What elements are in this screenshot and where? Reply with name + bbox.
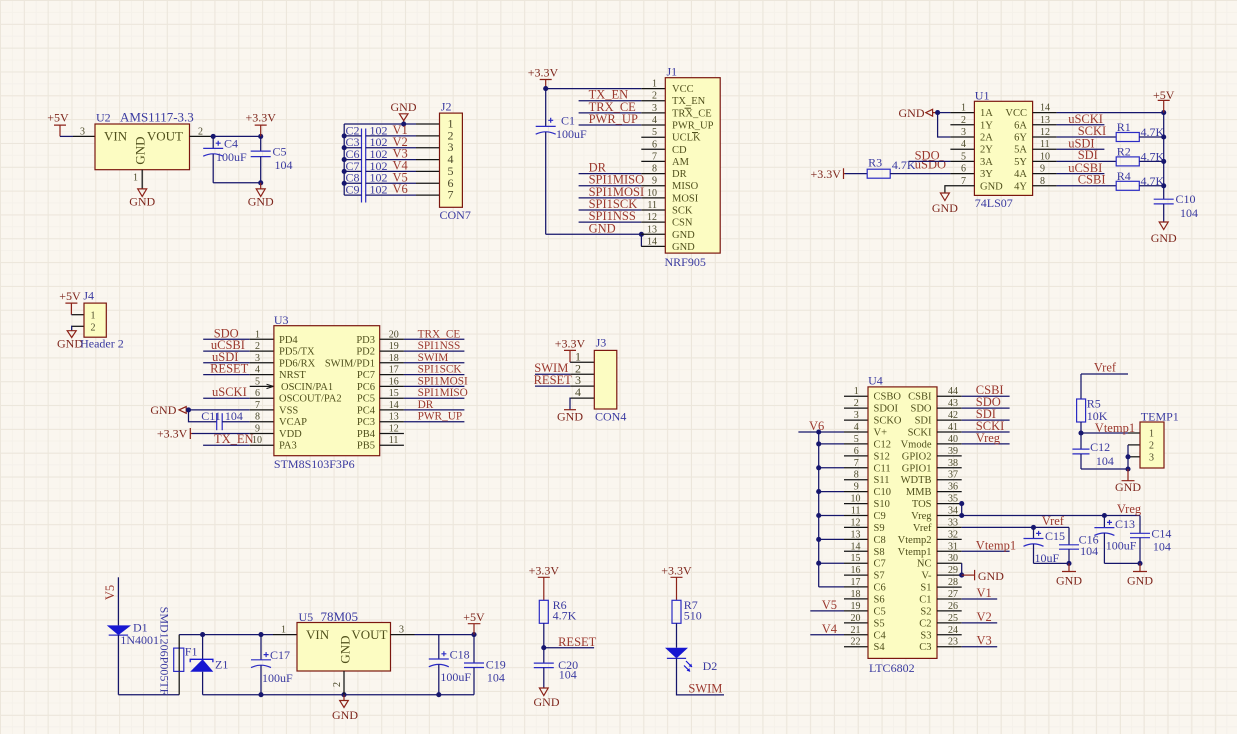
- svg-text:GND: GND: [391, 100, 417, 114]
- svg-text:15: 15: [389, 388, 399, 399]
- wire Vref pin33 to C15 group: [962, 526, 1069, 528]
- power +5V port: [59, 289, 81, 315]
- ground below C20: [534, 688, 560, 709]
- svg-text:Vref: Vref: [1094, 361, 1117, 375]
- U3 pin names left: [279, 335, 342, 452]
- svg-text:3: 3: [80, 126, 85, 137]
- svg-text:C1: C1: [919, 594, 931, 605]
- svg-text:R4: R4: [1117, 169, 1131, 183]
- U4 pin stubs right: [937, 396, 962, 647]
- svg-text:104: 104: [1180, 206, 1198, 220]
- svg-text:LTC6802: LTC6802: [869, 661, 915, 675]
- U4 pin numbers left: [851, 386, 861, 648]
- svg-text:AMS1117-3.3: AMS1117-3.3: [120, 110, 194, 125]
- ground rail: [203, 694, 474, 696]
- svg-text:TOS: TOS: [912, 499, 932, 510]
- U4 pin stubs left: [844, 396, 868, 647]
- svg-text:8: 8: [1040, 176, 1045, 187]
- svg-text:78M05: 78M05: [321, 609, 359, 624]
- svg-text:7: 7: [448, 188, 454, 202]
- capacitor C20 104: [534, 658, 578, 688]
- svg-text:1: 1: [961, 103, 966, 114]
- svg-text:2: 2: [652, 91, 657, 102]
- svg-text:GND: GND: [332, 708, 358, 722]
- svg-text:4: 4: [575, 385, 581, 399]
- svg-text:VCC: VCC: [1005, 108, 1027, 119]
- clock arrow on pin5: [267, 384, 274, 388]
- svg-text:2: 2: [961, 115, 966, 126]
- U1 pin stubs right: [1033, 113, 1057, 186]
- svg-text:V4: V4: [822, 622, 838, 636]
- svg-text:4: 4: [652, 115, 657, 126]
- svg-text:V6: V6: [393, 182, 408, 196]
- svg-text:C5: C5: [273, 145, 287, 159]
- svg-text:11: 11: [647, 200, 657, 211]
- svg-text:PD6/RX: PD6/RX: [279, 358, 316, 369]
- U1 pin7 GND wire: [945, 186, 975, 193]
- svg-text:4: 4: [854, 422, 859, 433]
- fuse F1 SMD1206P005TF: [158, 607, 198, 696]
- svg-text:S1: S1: [920, 582, 931, 593]
- svg-text:24: 24: [948, 625, 958, 636]
- svg-text:Vtemp1: Vtemp1: [976, 538, 1016, 552]
- svg-text:GND: GND: [672, 242, 695, 253]
- svg-text:J3: J3: [596, 335, 607, 349]
- power +3.3V port: [661, 564, 692, 601]
- svg-text:10: 10: [647, 188, 657, 199]
- power +5V port: [463, 610, 485, 635]
- capacitor C19 104: [464, 635, 506, 695]
- capacitor C11 104: [201, 409, 243, 430]
- node CSBI wire pin44: [962, 395, 1010, 397]
- wire VSS row: [189, 409, 250, 411]
- ground below C10: [1151, 222, 1177, 245]
- svg-text:4.7K: 4.7K: [553, 608, 577, 622]
- TEMP1 pin stubs: [1128, 433, 1140, 457]
- capacitor C17 100uF: [251, 635, 293, 695]
- svg-text:R3: R3: [868, 155, 882, 169]
- bus junction dots: [816, 441, 821, 446]
- svg-text:PWR_UP: PWR_UP: [418, 411, 463, 423]
- svg-text:+3.3V: +3.3V: [157, 426, 188, 440]
- svg-text:5: 5: [255, 376, 260, 387]
- svg-text:510: 510: [684, 608, 702, 622]
- connector J4 body: [84, 303, 106, 337]
- svg-text:TRX_CE: TRX_CE: [672, 108, 712, 119]
- J3 pin stubs: [570, 362, 594, 398]
- wire R7 to LED: [676, 623, 678, 647]
- svg-text:2A: 2A: [980, 133, 993, 144]
- capacitor C10 104: [1154, 192, 1198, 220]
- svg-text:J2: J2: [441, 99, 452, 113]
- svg-text:23: 23: [948, 637, 958, 648]
- svg-text:VOUT: VOUT: [351, 627, 387, 642]
- svg-text:40: 40: [948, 434, 958, 445]
- svg-text:S2: S2: [920, 606, 931, 617]
- svg-text:29: 29: [948, 565, 958, 576]
- svg-text:30: 30: [948, 553, 958, 564]
- svg-text:PC3: PC3: [357, 417, 375, 428]
- svg-text:41: 41: [948, 422, 958, 433]
- wire GND to pin1 and pin3: [938, 112, 951, 114]
- svg-text:GND: GND: [1115, 480, 1141, 494]
- svg-text:5A: 5A: [1014, 145, 1027, 156]
- svg-text:S9: S9: [874, 523, 885, 534]
- svg-text:C19: C19: [486, 657, 506, 671]
- svg-text:NC: NC: [917, 559, 932, 570]
- svg-text:SCKI: SCKI: [908, 428, 932, 439]
- svg-text:S6: S6: [874, 594, 885, 605]
- svg-text:C9: C9: [874, 511, 886, 522]
- svg-text:5: 5: [652, 127, 657, 138]
- svg-text:C11: C11: [874, 463, 891, 474]
- svg-text:10: 10: [252, 435, 262, 446]
- svg-text:1A: 1A: [980, 108, 993, 119]
- svg-text:SCKO: SCKO: [874, 416, 902, 427]
- J2 pin numbers: [448, 117, 454, 202]
- node SWIM wire pin2: [535, 373, 570, 375]
- svg-text:S5: S5: [874, 618, 885, 629]
- svg-text:V-: V-: [921, 571, 932, 582]
- capacitor C15 10uF: [1024, 527, 1066, 565]
- svg-text:SWIM/PD1: SWIM/PD1: [325, 358, 375, 369]
- svg-text:NRST: NRST: [279, 370, 306, 381]
- wire vertical C1 branch: [545, 89, 547, 127]
- svg-text:12: 12: [647, 212, 657, 223]
- junction dots on bus: [342, 133, 347, 138]
- wire +5V rail down to C10: [1163, 113, 1165, 200]
- svg-text:VOUT: VOUT: [147, 128, 183, 143]
- svg-text:3: 3: [1149, 452, 1154, 463]
- svg-text:F1: F1: [185, 644, 198, 658]
- svg-text:4Y: 4Y: [1014, 181, 1027, 192]
- capacitor C5 104: [251, 136, 293, 182]
- svg-text:GND: GND: [1151, 231, 1177, 245]
- svg-text:GND: GND: [129, 194, 155, 208]
- svg-text:GPIO1: GPIO1: [902, 463, 932, 474]
- svg-text:1: 1: [255, 329, 260, 340]
- pin 2 of U5: [343, 671, 345, 695]
- svg-text:1: 1: [281, 625, 286, 636]
- svg-text:2Y: 2Y: [980, 145, 993, 156]
- svg-text:GND: GND: [132, 136, 147, 164]
- svg-text:GPIO2: GPIO2: [902, 451, 932, 462]
- svg-text:1: 1: [1149, 429, 1154, 440]
- ground bar port pin29: [962, 569, 1005, 583]
- node V5 wire pin19: [810, 610, 844, 612]
- svg-text:36: 36: [948, 482, 958, 493]
- svg-text:16: 16: [851, 565, 861, 576]
- ground below U5: [332, 695, 358, 722]
- svg-text:GND: GND: [248, 194, 274, 208]
- svg-text:+3.3V: +3.3V: [529, 564, 560, 578]
- wire pin2 to ground: [71, 326, 73, 330]
- svg-text:S8: S8: [874, 547, 885, 558]
- svg-text:CON7: CON7: [440, 208, 471, 222]
- svg-text:104: 104: [1153, 540, 1171, 554]
- svg-text:33: 33: [948, 517, 958, 528]
- power +5V port: [1153, 88, 1175, 112]
- svg-text:GND: GND: [534, 695, 560, 709]
- svg-text:3A: 3A: [980, 157, 993, 168]
- wire C12 to bottom: [1080, 454, 1082, 469]
- svg-text:6Y: 6Y: [1014, 133, 1027, 144]
- svg-text:1: 1: [652, 79, 657, 90]
- zener Z1: [190, 635, 228, 695]
- ground bar port: [557, 410, 583, 424]
- power +3.3V port (R3): [810, 167, 845, 181]
- svg-text:V5: V5: [822, 598, 837, 612]
- svg-text:C18: C18: [450, 648, 470, 662]
- power +3.3V port (VDD): [157, 426, 192, 440]
- connector J2 body: [440, 113, 463, 207]
- ground bar below C16: [1056, 563, 1082, 587]
- node CSBI wire pin8 to R4: [1057, 185, 1117, 187]
- svg-text:V5: V5: [103, 585, 117, 600]
- svg-text:GND: GND: [1056, 573, 1082, 587]
- svg-text:SWIM: SWIM: [688, 682, 722, 696]
- svg-text:VIN: VIN: [306, 627, 330, 642]
- node Vreg wire pin40: [962, 443, 1010, 445]
- resistor R2 4.7K: [1116, 144, 1164, 166]
- svg-text:Vreg: Vreg: [911, 511, 932, 522]
- svg-text:8: 8: [255, 412, 260, 423]
- ground below U2: [129, 189, 155, 208]
- node SDO wire pin5: [909, 160, 951, 162]
- ground below J4: [57, 331, 83, 351]
- svg-text:6A: 6A: [1014, 120, 1027, 131]
- svg-text:uSCKI: uSCKI: [212, 385, 247, 399]
- overbar on UCLK K: [692, 132, 698, 134]
- svg-text:SPI1MOSI: SPI1MOSI: [418, 375, 468, 387]
- svg-text:RESET: RESET: [558, 635, 597, 649]
- svg-text:STM8S103F3P6: STM8S103F3P6: [274, 457, 355, 471]
- wires rows V1..V6: [344, 136, 416, 195]
- capacitor C1 100uF: [536, 113, 587, 140]
- svg-text:SPI1MISO: SPI1MISO: [418, 387, 468, 399]
- wire down to C11 row: [189, 410, 217, 422]
- svg-text:17: 17: [389, 365, 399, 376]
- svg-text:GND: GND: [589, 221, 616, 235]
- diode D1 1N4001: [107, 621, 159, 648]
- node V3 wire pin23: [962, 646, 998, 648]
- svg-text:V2: V2: [977, 610, 992, 624]
- net wires with labels: [579, 101, 642, 222]
- svg-text:100uF: 100uF: [262, 671, 293, 685]
- svg-text:7: 7: [854, 458, 859, 469]
- svg-text:10: 10: [1040, 151, 1050, 162]
- svg-text:6: 6: [255, 388, 260, 399]
- node V2 wire pin25: [962, 622, 998, 624]
- svg-text:2: 2: [91, 323, 96, 334]
- svg-text:C5: C5: [874, 606, 886, 617]
- capacitor C4 100uF: [203, 136, 247, 182]
- svg-text:31: 31: [948, 541, 958, 552]
- svg-text:SMD1206P005TF: SMD1206P005TF: [158, 607, 172, 696]
- svg-text:74LS07: 74LS07: [975, 196, 1013, 210]
- svg-text:+3.3V: +3.3V: [810, 167, 841, 181]
- svg-text:13: 13: [647, 224, 657, 235]
- wire R3 to pin6: [890, 173, 950, 175]
- wire R5 to Vtemp1 node: [1080, 422, 1082, 449]
- resistor R5 10K: [1077, 397, 1108, 424]
- regulator U5 78M05 body: [297, 623, 391, 672]
- svg-text:S3: S3: [920, 630, 931, 641]
- J2 pin stubs: [416, 124, 440, 195]
- svg-text:C6: C6: [874, 582, 886, 593]
- svg-text:D2: D2: [703, 659, 718, 673]
- node SDI wire pin42: [962, 419, 1010, 421]
- svg-text:34: 34: [948, 506, 958, 517]
- svg-text:4A: 4A: [1014, 169, 1027, 180]
- power +3.3V port: [529, 564, 560, 601]
- svg-text:+5V: +5V: [47, 111, 69, 125]
- ground below C5: [248, 183, 274, 209]
- svg-text:GND: GND: [672, 230, 695, 241]
- svg-text:22: 22: [851, 637, 861, 648]
- LED D2: [665, 648, 717, 673]
- svg-text:104: 104: [275, 158, 293, 172]
- svg-text:V+: V+: [874, 428, 888, 439]
- svg-text:NRF905: NRF905: [665, 255, 706, 269]
- svg-text:4: 4: [255, 365, 260, 376]
- svg-text:TRX_CE: TRX_CE: [418, 328, 461, 340]
- svg-text:13: 13: [389, 412, 399, 423]
- svg-text:VCC: VCC: [672, 84, 694, 95]
- svg-text:VCAP: VCAP: [279, 417, 307, 428]
- svg-text:2: 2: [255, 341, 260, 352]
- svg-text:43: 43: [948, 398, 958, 409]
- wire cell bus: [818, 432, 820, 587]
- svg-text:MMB: MMB: [906, 487, 932, 498]
- svg-text:4: 4: [961, 139, 966, 150]
- svg-text:9: 9: [652, 176, 657, 187]
- U1 pin numbers right: [1040, 103, 1050, 187]
- U1 pin names: [980, 108, 1003, 192]
- svg-text:WDTB: WDTB: [901, 475, 932, 486]
- svg-text:Vref: Vref: [1042, 514, 1065, 528]
- svg-text:100uF: 100uF: [216, 150, 247, 164]
- svg-text:7: 7: [652, 151, 657, 162]
- svg-text:CSBI: CSBI: [1078, 173, 1106, 187]
- svg-text:SWIM: SWIM: [418, 352, 449, 364]
- svg-text:3: 3: [399, 625, 404, 636]
- node V4 wire pin21: [810, 634, 844, 636]
- wire +3.3V to R3: [845, 173, 867, 175]
- svg-text:26: 26: [948, 601, 958, 612]
- svg-text:U2: U2: [96, 111, 111, 125]
- wire D1 to rail: [117, 635, 119, 695]
- svg-text:15: 15: [851, 553, 861, 564]
- power +3.3V port: [245, 111, 276, 137]
- svg-text:38: 38: [948, 458, 958, 469]
- svg-text:8: 8: [652, 164, 657, 175]
- pin 1 of U5: [273, 634, 297, 636]
- wire left bus: [343, 124, 345, 195]
- wire D2 to SWIM: [677, 658, 725, 695]
- svg-text:1: 1: [133, 172, 138, 183]
- svg-text:7: 7: [255, 400, 260, 411]
- svg-text:OSCIN/PA1: OSCIN/PA1: [281, 382, 333, 393]
- svg-text:13: 13: [851, 529, 861, 540]
- wire C10 to ground: [1163, 204, 1165, 222]
- node uSDI wire pin11: [1057, 148, 1105, 150]
- svg-text:PD2: PD2: [356, 347, 375, 358]
- U3 pin numbers left: [252, 329, 262, 446]
- svg-text:C4: C4: [874, 630, 887, 641]
- svg-text:U4: U4: [868, 373, 883, 387]
- svg-text:9: 9: [854, 482, 859, 493]
- svg-text:2: 2: [332, 682, 343, 687]
- svg-text:PA3: PA3: [279, 441, 297, 452]
- pin 2 of U2: [190, 135, 214, 137]
- svg-text:PC7: PC7: [357, 370, 375, 381]
- svg-text:+3.3V: +3.3V: [245, 111, 276, 125]
- wire tie pins 30-29: [961, 563, 963, 575]
- svg-text:6: 6: [961, 164, 966, 175]
- wire +3.3V to pin1: [569, 361, 571, 363]
- svg-text:6: 6: [652, 139, 657, 150]
- pin 3 of U2: [73, 135, 95, 137]
- svg-text:18: 18: [389, 353, 399, 364]
- power +5V port: [47, 111, 69, 137]
- U3 pin stubs right: [380, 339, 404, 445]
- svg-text:11: 11: [1040, 139, 1050, 150]
- svg-text:7: 7: [961, 176, 966, 187]
- svg-text:Vtemp2: Vtemp2: [898, 535, 932, 546]
- J4 pin stubs: [72, 315, 84, 327]
- svg-text:C12: C12: [1090, 440, 1110, 454]
- node V1 wire pin27: [962, 598, 998, 600]
- node SCKI wire pin41: [962, 431, 1010, 433]
- wire bottom rail: [213, 182, 261, 184]
- wire C1 down to GND row: [545, 132, 547, 234]
- svg-text:5: 5: [854, 434, 859, 445]
- svg-text:21: 21: [851, 625, 861, 636]
- svg-text:3: 3: [961, 127, 966, 138]
- svg-text:PC4: PC4: [357, 405, 376, 416]
- svg-text:C8: C8: [874, 535, 886, 546]
- power +3.3V port: [528, 66, 559, 89]
- svg-text:J4: J4: [83, 289, 94, 303]
- svg-text:MISO: MISO: [672, 181, 699, 192]
- svg-text:SCK: SCK: [672, 206, 693, 217]
- wire: [60, 135, 73, 137]
- connector J1 body NRF905: [665, 78, 720, 253]
- J1 pin names: [672, 84, 714, 253]
- resistor R7 510: [672, 598, 702, 623]
- svg-text:TEMP1: TEMP1: [1141, 409, 1179, 423]
- node SDI wire pin10 to R2: [1057, 160, 1117, 162]
- svg-text:16: 16: [389, 376, 399, 387]
- svg-text:104: 104: [559, 668, 577, 682]
- svg-text:12: 12: [851, 517, 861, 528]
- IC U3 STM8S103F3P6 body: [274, 326, 380, 456]
- svg-text:C4: C4: [224, 137, 238, 151]
- ground above J2: [391, 100, 417, 124]
- svg-text:GND: GND: [932, 201, 958, 215]
- capacitor C14 104: [1130, 516, 1171, 564]
- svg-text:GND: GND: [978, 569, 1004, 583]
- U1 pin numbers left: [961, 103, 966, 187]
- svg-text:3: 3: [652, 103, 657, 114]
- wire fuse to VIN rail: [178, 635, 180, 649]
- svg-text:RESET: RESET: [534, 373, 573, 387]
- node Vtemp1 wire pin31: [962, 550, 1010, 552]
- IC U4 LTC6802 body: [868, 387, 937, 659]
- U3 pin names right: [325, 335, 376, 452]
- wire GND row to J2 pin1: [344, 123, 416, 125]
